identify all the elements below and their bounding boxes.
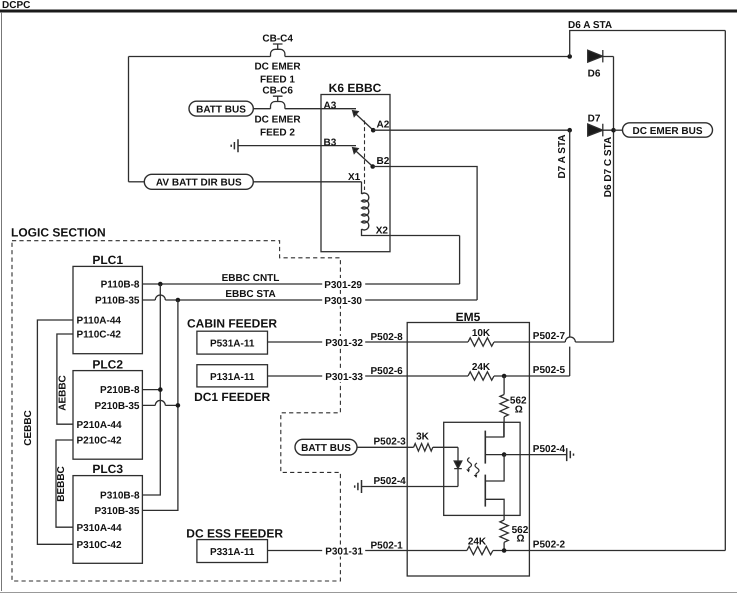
node D7 cathode junction [611,128,616,133]
svg-text:BATT BUS: BATT BUS [301,443,351,454]
wire P210B-35 stub with hop [142,404,178,406]
svg-text:D7 A STA: D7 A STA [557,134,568,178]
circuit breaker CB-C6 [271,96,285,109]
box P531A-11 [197,331,268,354]
top border thick line [0,10,737,13]
svg-text:Ω: Ω [515,404,523,415]
svg-text:P301-32: P301-32 [325,338,363,349]
wire BATT BUS to 3K y447.3 [357,446,414,448]
wire vertical bus v2 [142,300,178,510]
svg-text:D6: D6 [588,69,601,80]
svg-text:D6 D7 C STA: D6 D7 C STA [603,137,614,197]
svg-text:P502-5: P502-5 [533,365,566,376]
wire P301-32 row y342 [268,341,408,343]
optocoupler inner box [444,422,520,515]
svg-text:EBBC CNTL: EBBC CNTL [222,273,280,284]
node junction bottom [502,548,507,553]
wire right loop vertical [724,31,726,551]
svg-text:P110C-42: P110C-42 [77,330,122,341]
svg-text:P502-4: P502-4 [533,444,566,455]
svg-text:24K: 24K [472,362,491,373]
svg-text:DC EMER BUS: DC EMER BUS [632,126,702,137]
wire P301-33 row y376 [268,375,408,377]
wire D6 A STA up and across [570,31,726,57]
svg-text:X2: X2 [376,226,389,237]
svg-text:P502-7: P502-7 [533,331,566,342]
svg-text:B2: B2 [377,156,390,167]
svg-text:P310B-35: P310B-35 [94,506,139,517]
svg-text:P502-2: P502-2 [533,540,566,551]
svg-text:LOGIC SECTION: LOGIC SECTION [11,226,106,240]
svg-text:PLC1: PLC1 [92,253,123,267]
box P131A-11 [197,365,268,387]
bottom page border [0,592,737,594]
node D7 anode junction [567,128,572,133]
wire vertical bus v1 [142,284,160,495]
diode D6 [588,50,603,62]
svg-text:10K: 10K [472,328,491,339]
node D6 anode junction [567,54,572,59]
wire P502-2 out to right loop [529,550,725,552]
wire P502-5 out [529,375,569,377]
svg-text:P310A-44: P310A-44 [77,523,122,534]
svg-text:P131A-11: P131A-11 [210,372,255,383]
svg-text:CB-C6: CB-C6 [262,86,293,97]
svg-text:A3: A3 [324,101,337,112]
svg-text:D7: D7 [588,113,601,124]
svg-text:P210A-44: P210A-44 [77,420,122,431]
svg-text:P331A-11: P331A-11 [210,547,255,558]
node FET midpoint [502,452,507,457]
node B2 [370,164,375,169]
wire left loop vertical [128,57,130,182]
wire X1 down to coil [361,182,363,194]
svg-text:CEBBC: CEBBC [23,410,34,446]
ground at B3 feed [231,139,238,152]
resistor 24K row2 [407,375,529,377]
svg-text:PLC2: PLC2 [92,357,123,371]
LED optocoupler [457,447,459,461]
wire AV BATT DIR BUS to X1 [253,181,361,183]
resistor 562 lower [503,515,505,520]
wire top feed row y56.5 [129,56,614,58]
wire A2 to D7 y130.2 [373,129,568,131]
svg-text:A2: A2 [377,120,390,131]
svg-text:DC EMER: DC EMER [254,115,301,126]
transistor Q1 upper MOSFET [484,431,486,464]
svg-text:P531A-11: P531A-11 [210,339,255,350]
ground at P502-4 output [567,448,574,461]
svg-text:P502-6: P502-6 [371,366,404,377]
node junction P110B-8 [158,282,163,287]
node A2 [371,128,376,133]
wire X2 return [459,236,461,285]
svg-text:AEBBC: AEBBC [58,375,69,411]
wire loop to AV BATT DIR BUS [129,181,145,183]
wire EBBC CNTL row y284 [142,283,459,285]
wire P210B-8 stub [142,389,160,391]
wire P502-7 out with hop [529,341,613,343]
wire AEBBC bus [57,334,73,424]
wire BEBBC bus [56,440,73,527]
svg-text:X1: X1 [348,172,361,183]
wire ground to B3 y145.6 [238,145,356,147]
svg-text:BATT BUS: BATT BUS [196,105,246,116]
resistor 24K bottom [407,550,529,552]
bus pill DC EMER BUS [614,129,623,131]
contact arm A [353,111,359,117]
wire P502-4 output row y454.6 [504,454,567,456]
svg-text:K6 EBBC: K6 EBBC [329,81,382,95]
node junction 24K-562 [502,374,507,379]
svg-text:P502-3: P502-3 [374,437,407,448]
svg-text:P310C-42: P310C-42 [77,540,122,551]
svg-text:DC1 FEEDER: DC1 FEEDER [194,390,270,404]
svg-text:P210B-8: P210B-8 [100,385,140,396]
resistor 3K [414,444,433,452]
box P331A-11 [197,540,268,563]
wire CEBBC bus [37,320,73,544]
label P301-30 [322,294,365,306]
svg-text:P301-29: P301-29 [324,280,362,291]
coil K6 [362,193,369,230]
left page border [1,12,3,591]
svg-text:P310B-8: P310B-8 [100,491,140,502]
wire BATT BUS to A3 y108.7 [253,108,356,110]
ground at P502-4 input [355,480,362,493]
resistor 10K [407,341,529,343]
svg-text:Ω: Ω [517,534,525,545]
svg-text:P502-8: P502-8 [371,332,404,343]
svg-text:EBBC STA: EBBC STA [225,289,275,300]
svg-text:FEED 2: FEED 2 [260,128,295,139]
light arrows [468,458,472,470]
wire EBBC STA row y300 with hop [142,299,477,301]
svg-text:AV BATT DIR BUS: AV BATT DIR BUS [156,178,242,189]
svg-text:FEED 1: FEED 1 [260,75,295,86]
linkage dashed [364,121,366,191]
svg-text:DCPC: DCPC [2,0,30,11]
svg-text:P502-4: P502-4 [374,476,407,487]
svg-text:DC EMER: DC EMER [254,62,301,73]
wire D6 D7 C STA vertical [613,57,615,343]
label P301-29 [322,278,365,290]
svg-text:P301-30: P301-30 [324,296,362,307]
bus pill BATT BUS lower [295,439,357,455]
svg-text:P110A-44: P110A-44 [77,316,122,327]
bus pill AV BATT DIR BUS [144,174,253,189]
transistor Q2 lower MOSFET [484,475,486,507]
svg-text:24K: 24K [468,537,487,548]
node junction P110B-35 [176,298,181,303]
svg-text:CB-C4: CB-C4 [262,34,293,45]
svg-text:3K: 3K [416,432,430,443]
svg-text:B3: B3 [324,138,337,149]
svg-text:P502-1: P502-1 [371,541,404,552]
svg-text:BEBBC: BEBBC [56,466,67,502]
svg-text:EM5: EM5 [456,310,481,324]
wire coil to X2 [362,229,460,236]
resistor 562 upper [503,376,505,395]
svg-text:P210B-35: P210B-35 [94,401,139,412]
svg-text:P301-31: P301-31 [325,547,363,558]
svg-text:P210C-42: P210C-42 [77,436,122,447]
svg-text:CABIN FEEDER: CABIN FEEDER [187,317,277,331]
svg-text:P301-33: P301-33 [325,372,363,383]
wire B2 return [373,167,477,301]
wire P502-4 input row y486.5 [362,486,459,488]
svg-text:P110B-35: P110B-35 [95,296,140,307]
wire D7 A STA vertical [569,130,571,376]
svg-text:DC ESS FEEDER: DC ESS FEEDER [186,526,283,540]
svg-text:D6 A STA: D6 A STA [568,20,612,31]
svg-text:PLC3: PLC3 [92,462,123,476]
wire P301-31 row y550.5 [268,550,408,552]
contact arm B [353,148,359,154]
svg-text:P110B-8: P110B-8 [101,280,140,291]
bus pill BATT BUS [189,101,253,116]
circuit breaker CB-C4 [271,44,285,57]
